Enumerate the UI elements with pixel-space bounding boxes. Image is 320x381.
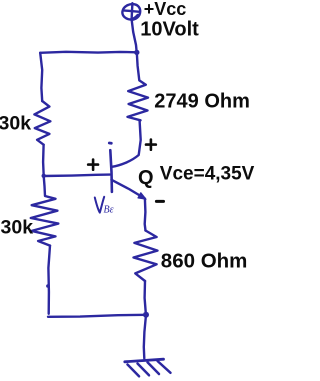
ground hatch 3 <box>148 362 160 374</box>
node base junction <box>42 174 46 178</box>
ground hatch 1 <box>128 365 140 377</box>
wire R1 to base node <box>42 145 45 176</box>
Vcc terminal +Vcc <box>122 3 140 19</box>
transistor Q emitter lead <box>112 180 145 199</box>
svg-text:Vce=4,35V: Vce=4,35V <box>160 164 255 185</box>
wire base horizontal <box>44 175 110 176</box>
node bottom junction <box>143 312 149 318</box>
wire left vertical lower <box>48 246 50 314</box>
ground hatch 2 <box>138 364 150 376</box>
svg-text:2749 Ohm: 2749 Ohm <box>154 91 250 113</box>
transistor Q emitter arrowhead <box>138 193 146 199</box>
svg-text:30k: 30k <box>1 217 34 239</box>
resistor R4 860 Ohm <box>134 231 158 282</box>
svg-text:+Vcc: +Vcc <box>144 0 187 19</box>
wire top horizontal <box>40 52 137 53</box>
resistor R2 30k (lower left) <box>31 176 59 246</box>
resistor R3 2749 Ohm <box>128 52 149 120</box>
svg-text:30k: 30k <box>0 113 31 135</box>
ground hatch 4 <box>158 361 171 373</box>
node top junction <box>134 50 139 55</box>
transistor Q collector lead <box>112 121 141 167</box>
node small blob on left lower wire <box>46 284 50 288</box>
minus sign at emitter <box>156 200 163 203</box>
svg-text:Bε: Bε <box>104 205 114 216</box>
label VBE handwritten <box>95 197 104 213</box>
wire left vertical upper <box>40 53 42 101</box>
ground bar <box>125 359 164 362</box>
transistor Q base bar <box>110 150 112 192</box>
plus sign at collector <box>146 140 156 150</box>
wire R4 to bottom node <box>145 281 146 315</box>
resistor R1 30k (upper left) <box>34 101 50 145</box>
plus sign at base <box>88 160 98 170</box>
transistor Q base bar top tick <box>109 142 111 145</box>
wire bottom horizontal <box>48 315 146 317</box>
wire emitter vertical <box>143 199 146 231</box>
svg-text:Q: Q <box>138 167 154 189</box>
svg-text:10Volt: 10Volt <box>140 19 199 41</box>
wire Vcc terminal to top node <box>132 19 137 52</box>
svg-text:860 Ohm: 860 Ohm <box>161 250 248 273</box>
wire bottom node to ground <box>144 315 146 359</box>
